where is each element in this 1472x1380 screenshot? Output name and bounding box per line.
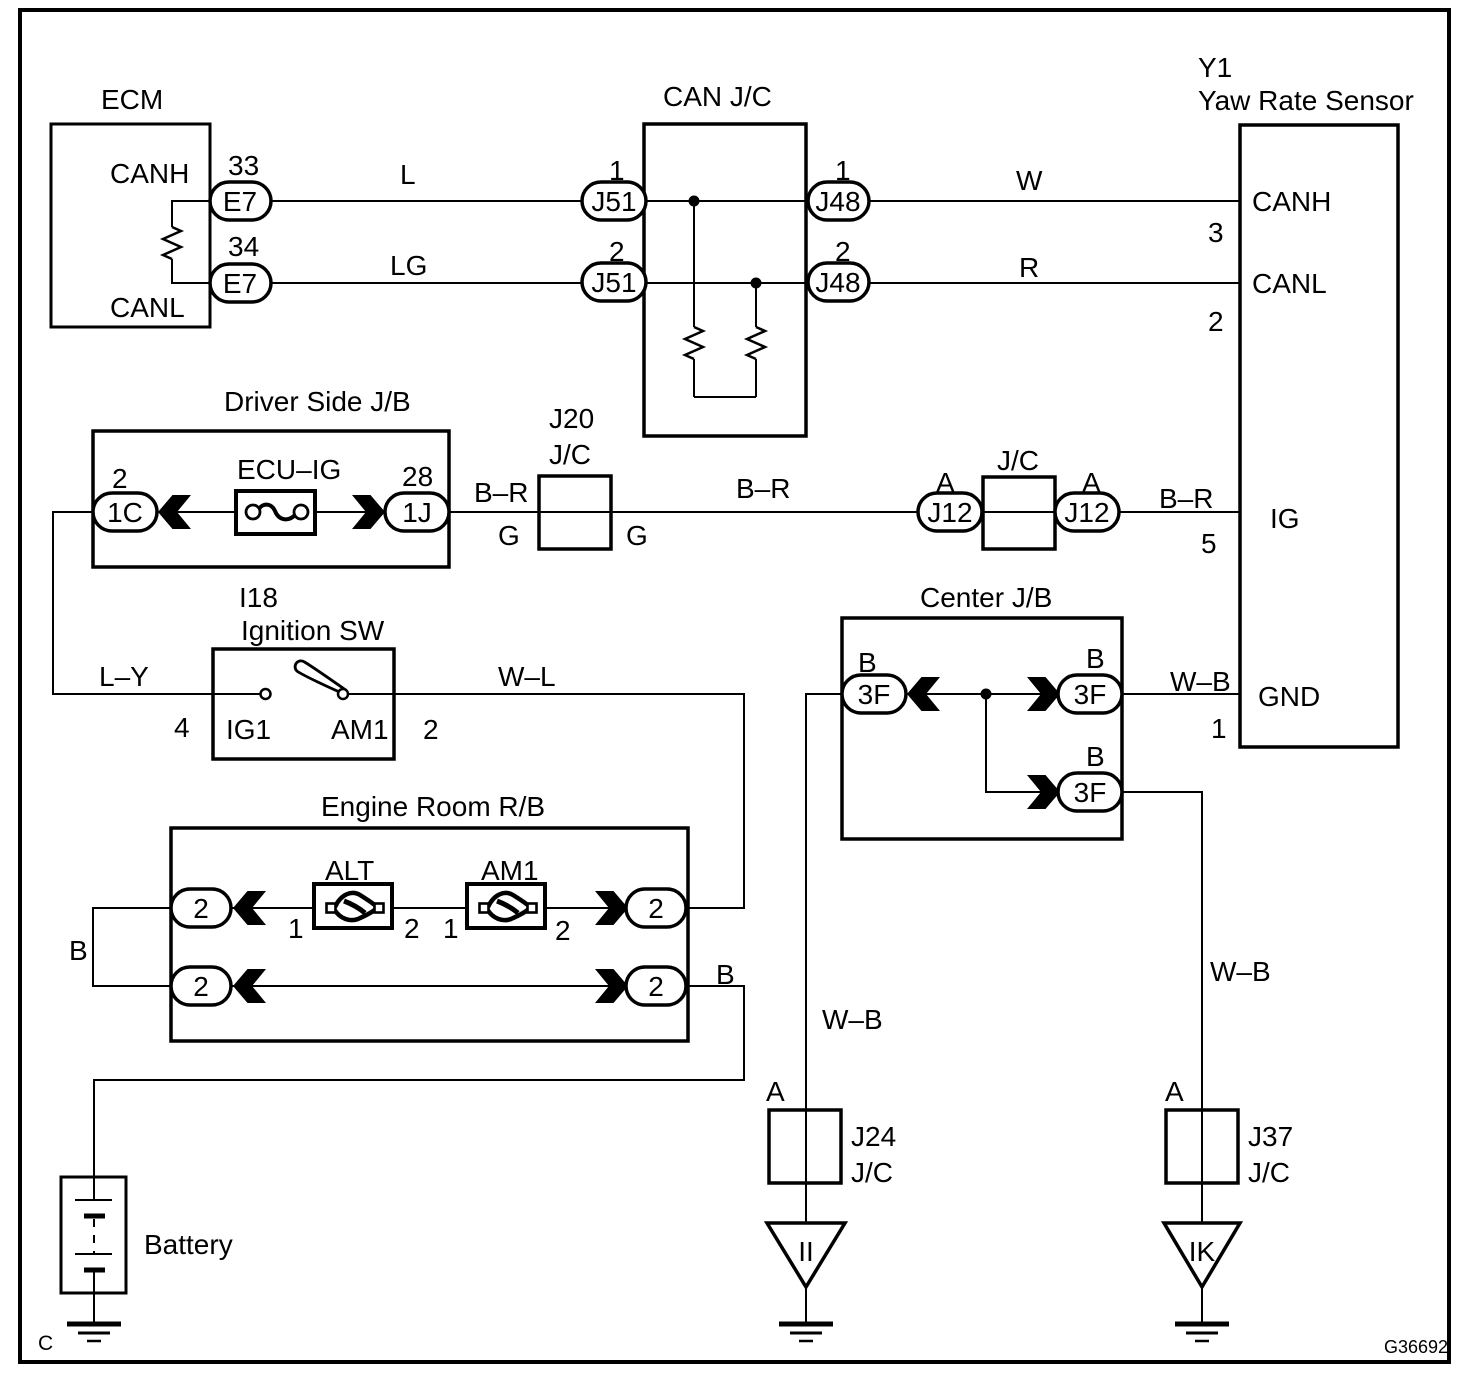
- svg-text:1: 1: [1211, 713, 1227, 744]
- svg-text:3F: 3F: [1074, 777, 1107, 808]
- svg-text:G: G: [498, 520, 520, 551]
- wire W-B ground branch (left): [806, 694, 842, 1223]
- fuse ECU-IG: [236, 491, 315, 534]
- svg-text:28: 28: [402, 461, 433, 492]
- svg-text:5: 5: [1201, 528, 1217, 559]
- svg-text:J51: J51: [591, 267, 636, 298]
- svg-text:IG1: IG1: [226, 714, 271, 745]
- svg-text:2: 2: [648, 971, 664, 1002]
- battery bottom wire to ground: [93, 1270, 95, 1324]
- svg-text:W–B: W–B: [1170, 666, 1231, 697]
- svg-text:J/C: J/C: [1248, 1157, 1290, 1188]
- svg-text:1C: 1C: [107, 497, 143, 528]
- connector J48 pin 1: [808, 182, 869, 220]
- svg-text:G36692: G36692: [1384, 1337, 1448, 1357]
- arrow out to top-right 2: [595, 891, 628, 925]
- svg-text:R: R: [1019, 252, 1039, 283]
- svg-text:W: W: [1016, 165, 1043, 196]
- ground symbol (battery): [67, 1324, 121, 1341]
- svg-text:IK: IK: [1189, 1236, 1216, 1267]
- fusible link ALT: [314, 884, 392, 928]
- connector 2 (top right): [626, 889, 686, 927]
- svg-text:J37: J37: [1248, 1121, 1293, 1152]
- svg-text:B: B: [1086, 643, 1105, 674]
- connector J48 pin 2: [808, 263, 869, 301]
- svg-text:4: 4: [174, 712, 190, 743]
- svg-text:2: 2: [648, 893, 664, 924]
- wire B linking left connectors: [93, 908, 171, 986]
- arrow out to bottom-right 2: [595, 969, 628, 1003]
- svg-text:1: 1: [288, 913, 304, 944]
- connector 2 (bottom right): [626, 967, 686, 1005]
- svg-text:B–R: B–R: [736, 473, 790, 504]
- svg-text:1: 1: [443, 913, 459, 944]
- svg-text:I18: I18: [239, 582, 278, 613]
- wire W-B from 3F to Y1 GND: [1122, 693, 1240, 695]
- arrow into left 3F: [907, 677, 940, 711]
- connector 2 (bottom left): [171, 967, 231, 1005]
- node junction dot on CANL: [751, 278, 762, 289]
- wire from 3F junction down to lower 3F: [986, 694, 1060, 792]
- wire W-L from AM1 to Engine Room R/B: [348, 694, 744, 908]
- svg-text:B: B: [1086, 741, 1105, 772]
- svg-text:3: 3: [1208, 217, 1224, 248]
- wire from IK triangle to ground: [1201, 1287, 1203, 1324]
- wire through J20 J/C: [539, 511, 918, 513]
- top feed wire in Engine Room R/B: [201, 907, 656, 909]
- svg-text:2: 2: [404, 913, 420, 944]
- svg-text:Battery: Battery: [144, 1229, 233, 1260]
- wire B from bottom-right 2 to battery: [94, 986, 744, 1177]
- svg-text:CAN J/C: CAN J/C: [663, 81, 772, 112]
- svg-text:E7: E7: [223, 268, 257, 299]
- svg-text:J20: J20: [549, 403, 594, 434]
- connector J51 pin 2: [582, 263, 646, 301]
- wire inside Driver Side J/B (1C to 1J): [125, 511, 420, 513]
- svg-text:Center J/B: Center J/B: [920, 582, 1052, 613]
- svg-text:IG: IG: [1270, 503, 1300, 534]
- connector 2 (top left): [171, 889, 231, 927]
- wire L (E7-33 to J51-1): [241, 200, 614, 202]
- svg-text:Ignition SW: Ignition SW: [241, 615, 385, 646]
- svg-text:W–B: W–B: [1210, 956, 1271, 987]
- arrow into top-left 2: [233, 891, 266, 925]
- fuse AM1: [467, 884, 545, 928]
- svg-text:CANH: CANH: [1252, 186, 1331, 217]
- wire W (J48-1 to Y1 CANH): [869, 200, 1240, 202]
- connector 3F (lower right): [1058, 773, 1122, 811]
- svg-text:E7: E7: [223, 186, 257, 217]
- junction block J20: [539, 476, 611, 549]
- wire from 1C down to ignition switch: [53, 512, 261, 694]
- ignition switch I18 box: [213, 649, 394, 759]
- svg-text:GND: GND: [1258, 681, 1320, 712]
- svg-text:B: B: [69, 935, 88, 966]
- battery negative plate (top): [84, 1214, 105, 1219]
- wire B-R to Y1 IG: [1119, 511, 1240, 513]
- ground symbol (IK): [1175, 1324, 1229, 1341]
- node junction dot in Center J/B: [981, 689, 992, 700]
- svg-text:ALT: ALT: [325, 855, 374, 886]
- Center J/B box: [842, 618, 1122, 839]
- battery box: [61, 1177, 126, 1293]
- svg-text:J48: J48: [815, 267, 860, 298]
- battery positive plate (bottom): [75, 1253, 112, 1255]
- svg-text:B–R: B–R: [1159, 483, 1213, 514]
- wire through J/C block: [982, 511, 1057, 513]
- wire W-B ground branch (right): [1122, 792, 1202, 1223]
- connector 3F (upper right): [1058, 675, 1122, 713]
- svg-text:AM1: AM1: [481, 855, 539, 886]
- CAN J/C box: [644, 124, 806, 436]
- svg-text:J/C: J/C: [549, 439, 591, 470]
- J24 J/C label: [851, 1121, 896, 1188]
- svg-text:L: L: [400, 159, 416, 190]
- wire joining resistor bottoms: [694, 396, 756, 398]
- svg-text:C: C: [38, 1332, 53, 1355]
- svg-text:2: 2: [112, 463, 128, 494]
- connector J12 (left): [918, 493, 982, 531]
- svg-text:Y1: Y1: [1198, 52, 1232, 83]
- svg-text:J12: J12: [1064, 497, 1109, 528]
- ground symbol (II): [779, 1324, 833, 1341]
- right terminating resistor in CAN J/C: [747, 283, 765, 397]
- arrow out to 1J: [352, 495, 385, 529]
- node junction dot on CANH: [689, 196, 700, 207]
- J20 J/C label: [549, 403, 594, 470]
- svg-text:2: 2: [555, 915, 571, 946]
- wire from II triangle to ground: [805, 1287, 807, 1324]
- svg-text:AM1: AM1: [331, 714, 389, 745]
- svg-text:Yaw Rate Sensor: Yaw Rate Sensor: [1198, 85, 1414, 116]
- svg-text:II: II: [798, 1236, 814, 1267]
- junction block J24: [769, 1110, 841, 1183]
- svg-text:2: 2: [193, 971, 209, 1002]
- arrow into 1C: [158, 495, 191, 529]
- terminal AM1 contact: [338, 689, 348, 699]
- svg-text:CANL: CANL: [1252, 268, 1327, 299]
- Y1 Yaw Rate Sensor box: [1240, 125, 1398, 747]
- battery negative plate (bottom): [84, 1268, 105, 1273]
- svg-text:Engine Room R/B: Engine Room R/B: [321, 791, 545, 822]
- wire across Center J/B: [874, 693, 1090, 695]
- arrow into bottom-left 2: [233, 969, 266, 1003]
- svg-text:Driver Side J/B: Driver Side J/B: [224, 386, 411, 417]
- junction block J37: [1166, 1110, 1238, 1183]
- svg-text:34: 34: [228, 231, 259, 262]
- svg-text:G: G: [626, 520, 648, 551]
- connector 3F (left): [842, 675, 906, 713]
- svg-text:B–R: B–R: [474, 477, 528, 508]
- svg-text:W–L: W–L: [498, 661, 556, 692]
- svg-text:2: 2: [1208, 306, 1224, 337]
- J37 J/C label: [1248, 1121, 1293, 1188]
- wire from E7-33 to internal resistor: [172, 201, 211, 227]
- connector 1C: [93, 493, 157, 531]
- svg-text:ECU–IG: ECU–IG: [237, 454, 341, 485]
- ground triangle II: [767, 1223, 845, 1287]
- terminating resistor inside ECM: [163, 227, 181, 259]
- Y1 component label: [1198, 52, 1414, 116]
- svg-text:CANL: CANL: [110, 292, 185, 323]
- connector J51 pin 1: [582, 182, 646, 220]
- svg-text:LG: LG: [390, 250, 427, 281]
- battery top wire: [93, 1177, 95, 1200]
- svg-text:J48: J48: [815, 186, 860, 217]
- svg-text:J51: J51: [591, 186, 636, 217]
- svg-text:L–Y: L–Y: [99, 661, 149, 692]
- svg-text:A: A: [1165, 1076, 1184, 1107]
- svg-text:2: 2: [193, 893, 209, 924]
- svg-text:W–B: W–B: [822, 1004, 883, 1035]
- svg-text:3F: 3F: [1074, 679, 1107, 710]
- Engine Room R/B box: [171, 828, 688, 1041]
- svg-text:A: A: [766, 1076, 785, 1107]
- ECM box: [51, 124, 210, 327]
- connector E7 pin 34: [210, 264, 271, 302]
- svg-text:2: 2: [423, 714, 439, 745]
- svg-text:J/C: J/C: [997, 445, 1039, 476]
- left terminating resistor in CAN J/C: [685, 201, 703, 397]
- wire R (J48-2 to Y1 CANL): [869, 282, 1240, 284]
- connector J12 (right): [1055, 493, 1119, 531]
- battery positive plate (top): [75, 1199, 112, 1201]
- connector 1J: [385, 493, 449, 531]
- ground triangle IK: [1164, 1223, 1240, 1287]
- svg-text:CANH: CANH: [110, 158, 189, 189]
- junction block J/C: [983, 477, 1055, 549]
- svg-text:1J: 1J: [402, 497, 432, 528]
- svg-text:J/C: J/C: [851, 1157, 893, 1188]
- arrow out to right 3F: [1027, 677, 1060, 711]
- wire LG (E7-34 to J51-2): [241, 282, 614, 284]
- terminal IG1 contact: [261, 689, 271, 699]
- switch lever: [295, 661, 345, 694]
- svg-text:J24: J24: [851, 1121, 896, 1152]
- connector E7 pin 33: [210, 182, 271, 220]
- svg-text:J12: J12: [927, 497, 972, 528]
- svg-text:ECM: ECM: [101, 84, 163, 115]
- svg-text:33: 33: [228, 150, 259, 181]
- wire CANL inside CAN J/C: [614, 282, 838, 284]
- wire CANH inside CAN J/C: [614, 200, 838, 202]
- battery dashed middle link: [93, 1219, 95, 1253]
- bottom feed wire in Engine Room R/B: [201, 985, 656, 987]
- svg-text:3F: 3F: [858, 679, 891, 710]
- wire from resistor to E7-34: [172, 259, 211, 283]
- wire 1J to J20 J/C: [449, 511, 539, 513]
- Driver Side J/B box: [93, 431, 449, 567]
- arrow out to lower 3F: [1027, 775, 1060, 809]
